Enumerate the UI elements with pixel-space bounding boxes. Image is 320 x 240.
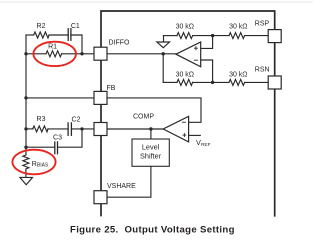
wire FB internal to error amp minus [107,98,201,122]
wire top row middle [193,35,229,37]
capacitor C2 [68,123,71,135]
wire bottom row to RSN [245,81,268,83]
highlight ellipse R1 [33,42,76,66]
svg-text:VREF: VREF [196,138,211,148]
svg-text:30 kΩ: 30 kΩ [176,24,194,31]
wire COMP node to level shifter [150,129,152,139]
svg-text:RSN: RSN [255,66,270,73]
wire top row to RSP [245,35,268,37]
junction node C1-R1-DIFFO [80,52,83,55]
svg-text:Level: Level [142,143,160,152]
pin RSN [268,76,281,89]
ground (RBIAS) [20,177,33,184]
IC body outline [101,11,275,216]
capacitor C3 [55,142,58,154]
junction node C3 row [24,146,27,149]
svg-text:DIFFO: DIFFO [109,40,131,47]
wire output node down to lower 30k row [162,54,164,83]
resistor R bottom-left 30k [177,79,193,85]
wire R1 row left [26,53,46,55]
svg-text:30 kΩ: 30 kΩ [229,71,247,78]
level shifter box [132,139,169,166]
svg-text:R2: R2 [37,23,46,30]
op-amp U1 diff amp [176,42,201,67]
svg-text:RBIAS: RBIAS [32,161,49,169]
wire minus tap [201,60,213,82]
resistor R bottom-right 30k [229,79,245,85]
svg-text:R3: R3 [37,116,46,123]
svg-text:C2: C2 [72,116,81,123]
pin minus (diff amp) [194,59,197,61]
ground (diff amp) [157,42,170,48]
wire C3 row left [26,146,55,148]
resistor R2 [34,32,49,38]
svg-text:R1: R1 [48,44,57,51]
pin plus (error amp) [183,134,186,137]
wire VREF stub [189,134,201,136]
junction node FB row [24,96,27,99]
wire bottom 30k row [163,81,177,83]
svg-text:RSP: RSP [255,21,270,28]
svg-text:Shifter: Shifter [140,152,162,161]
pin plus (diff amp) [194,47,197,50]
wire FB row [26,97,94,99]
wire DIFFO to diff-amp output [107,53,176,55]
junction node C2-C3-COMP [80,127,83,130]
svg-text:VSHARE: VSHARE [107,183,136,190]
resistor R top-right 30k [229,33,245,39]
wire COMP to error amp output [107,128,163,130]
svg-text:COMP: COMP [133,114,154,121]
wire C3 up to COMP node [58,129,83,147]
pin minus (error amp) [182,121,185,123]
pin COMP [94,123,107,136]
wire RBIAS to ground [25,171,27,178]
wire plus tap [201,36,213,49]
svg-text:C3: C3 [53,135,62,142]
junction node R1 left [24,52,27,55]
page rule top [0,1,313,3]
svg-text:FB: FB [107,85,116,92]
svg-text:C1: C1 [71,23,80,30]
wire C2 to COMP pin [71,128,94,130]
pin DIFFO [94,47,107,60]
junction node R3 row [24,127,27,130]
pin FB [94,91,107,104]
wire R3 row left [26,128,33,130]
wire bottom row middle [193,81,229,83]
svg-text:Figure 25. Output Voltage Set: Figure 25. Output Voltage Setting [70,224,235,235]
svg-text:30 kΩ: 30 kΩ [176,71,194,78]
ground stub (diff amp) [163,36,165,42]
pin VSHARE [94,191,107,204]
wire R1 to DIFFO pin [62,53,94,55]
wire top 30k row [164,35,178,37]
op-amp U2 error amp [163,116,188,142]
junction node bottom 30k [211,81,214,84]
wire level shifter to VSHARE [107,166,151,197]
resistor R top-left 30k [177,33,193,39]
resistor R3 [33,126,48,132]
svg-text:30 kΩ: 30 kΩ [229,24,247,31]
capacitor C1 [68,29,71,41]
wire R3 to C2 [48,128,68,130]
pin RSP [268,30,281,43]
resistor RBIAS [23,154,29,171]
wire R2 to C1 [49,34,68,36]
junction node top 30k [211,34,214,37]
wire R2 row left [26,34,34,36]
junction node diff amp output [162,52,165,55]
junction node COMP-level shifter [149,127,152,130]
resistor R1 [46,51,62,57]
wire left rail FB net [25,35,27,154]
highlight ellipse RBIAS [12,150,55,175]
wire C1 to corner down [71,35,82,54]
